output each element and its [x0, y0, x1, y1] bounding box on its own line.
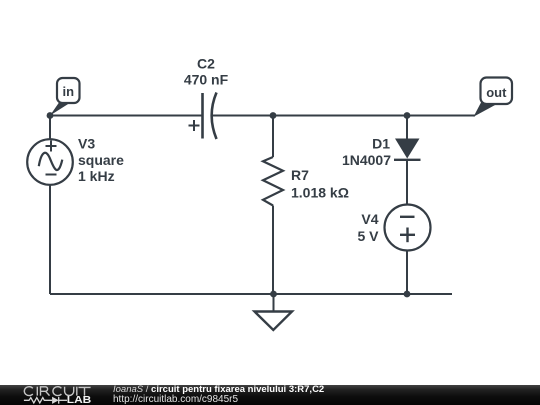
svg-text:1.018 kΩ: 1.018 kΩ — [291, 185, 349, 201]
svg-text:V4: V4 — [361, 211, 378, 227]
label V4 value — [357, 211, 379, 244]
flag out — [474, 78, 513, 117]
wire in-node to C2 left plate — [50, 115, 202, 117]
node V4 bottom junction — [404, 291, 411, 298]
voltage source V4 — [385, 205, 431, 251]
node in junction — [47, 112, 54, 119]
wire D1 to V4 — [406, 160, 408, 205]
resistor R7 — [263, 157, 283, 206]
label C2 value — [184, 56, 229, 88]
wire V3 bottom lead — [49, 185, 51, 295]
capacitor C2 — [189, 93, 217, 140]
svg-text:out: out — [486, 85, 507, 100]
wire D1 top lead — [406, 116, 408, 140]
wire R7 top lead — [272, 116, 274, 158]
node R7 bottom junction — [270, 291, 277, 298]
svg-text:D1: D1 — [372, 136, 390, 152]
wire C2 right plate to out tail — [213, 115, 476, 117]
wire V4 bottom lead — [406, 251, 408, 295]
diode D1 — [394, 139, 421, 160]
svg-text:470 nF: 470 nF — [184, 72, 229, 88]
label R7 value — [291, 167, 349, 201]
CircuitLab logo — [0, 385, 110, 405]
wire V3 top lead — [49, 116, 51, 140]
svg-text:square: square — [78, 152, 124, 168]
voltage source V3 — [27, 139, 73, 185]
flag in — [50, 78, 80, 116]
svg-text:5 V: 5 V — [357, 228, 379, 244]
wire R7 bottom lead — [272, 206, 274, 295]
ground — [255, 312, 293, 331]
label V3 value — [78, 136, 124, 185]
svg-text:C2: C2 — [197, 56, 215, 72]
footer title text — [113, 385, 324, 404]
svg-text:1N4007: 1N4007 — [342, 152, 391, 168]
svg-text:in: in — [63, 84, 75, 99]
node R7 top junction — [270, 112, 277, 119]
svg-text:R7: R7 — [291, 167, 309, 183]
svg-text:LAB: LAB — [67, 395, 92, 405]
label D1 value — [342, 136, 391, 169]
node D1 top junction — [404, 112, 411, 119]
wire bottom rail — [50, 293, 452, 295]
svg-text:V3: V3 — [78, 136, 95, 152]
wire ground lead — [273, 294, 275, 312]
svg-text:1 kHz: 1 kHz — [78, 168, 115, 184]
